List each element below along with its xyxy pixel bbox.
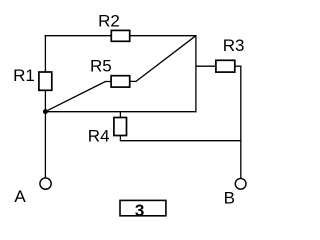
wire diagonal lower xyxy=(45,82,111,112)
terminal B xyxy=(235,178,246,189)
wire R4 stub bottom xyxy=(119,135,121,141)
resistor R1 xyxy=(39,72,52,90)
resistor R3 xyxy=(216,60,235,72)
svg-text:B: B xyxy=(224,189,235,208)
terminal A xyxy=(40,178,51,189)
wire left side xyxy=(44,35,46,178)
resistor R5 xyxy=(111,76,130,87)
svg-text:R5: R5 xyxy=(90,57,112,76)
junction node xyxy=(43,109,48,114)
wire bottom of box xyxy=(45,111,197,113)
wire diagonal upper xyxy=(130,36,196,82)
wire R4 stub top xyxy=(119,112,121,119)
svg-text:3: 3 xyxy=(135,201,144,220)
wire R3 left xyxy=(196,65,217,67)
wire R4 horizontal xyxy=(120,140,241,142)
svg-text:A: A xyxy=(14,187,26,206)
wire top xyxy=(45,35,197,37)
svg-text:R2: R2 xyxy=(98,11,120,30)
resistor R2 xyxy=(111,30,129,41)
wire right side of box xyxy=(195,35,197,112)
resistor R4 xyxy=(114,118,127,136)
svg-text:R1: R1 xyxy=(13,66,35,85)
wire right branch vertical xyxy=(240,66,242,178)
answer box xyxy=(120,200,166,215)
svg-text:R4: R4 xyxy=(88,127,110,146)
wire R3 right xyxy=(234,65,241,67)
svg-text:R3: R3 xyxy=(223,36,245,55)
